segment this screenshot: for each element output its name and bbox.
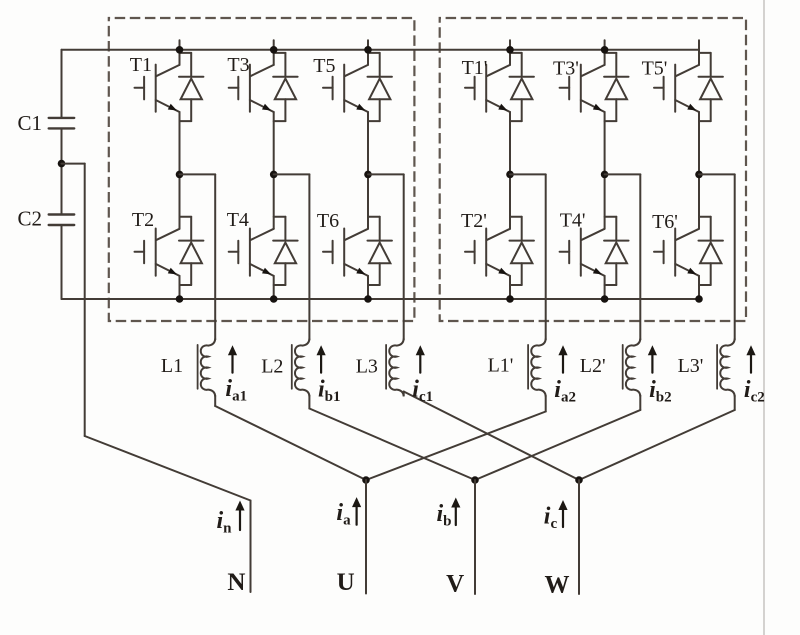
node: bottom rail junction at T6: [364, 295, 372, 303]
node: bottom rail junction at T4': [601, 295, 609, 303]
transistor T1 (IGBT, upper): [135, 40, 180, 174]
inductor L3: [386, 174, 579, 480]
dashed enclosure: inverter bridge 1: [109, 18, 415, 321]
transistor T4' (IGBT, lower): [560, 174, 605, 299]
node: phase-leg midpoint of T3/T4: [270, 171, 278, 179]
current arrow ia: [352, 497, 361, 525]
svg-text:T5': T5': [642, 58, 668, 80]
svg-text:L2: L2: [261, 355, 283, 377]
current arrow in: [235, 501, 244, 531]
svg-text:T6: T6: [317, 210, 339, 232]
node: bottom rail junction at T2: [176, 295, 184, 303]
svg-text:T2: T2: [132, 209, 154, 231]
node: top rail junction at T3: [270, 46, 278, 54]
wire: midpoint tap of leg T5'/T6': [699, 173, 735, 175]
svg-text:W: W: [545, 572, 570, 599]
dashed enclosure: inverter bridge 2: [440, 18, 746, 321]
diode: antiparallel diode of T1: [179, 53, 203, 121]
diode: antiparallel diode of T5: [368, 53, 392, 121]
transistor T5 (IGBT, upper): [323, 40, 368, 174]
diode: antiparallel diode of T4: [273, 217, 297, 285]
svg-text:L1: L1: [161, 355, 183, 377]
node: phase-leg midpoint of T5/T6: [364, 171, 372, 179]
inductor L1: [198, 174, 366, 480]
svg-text:T2': T2': [461, 210, 487, 232]
current arrow ib1: [317, 345, 326, 372]
transistor T6 (IGBT, lower): [323, 174, 368, 299]
svg-text:T5: T5: [313, 55, 335, 77]
node: bottom rail junction at T2': [506, 295, 514, 303]
inductor L1': [366, 174, 546, 480]
node W junction: [575, 476, 583, 484]
wire: midpoint tap of leg T1'/T2': [510, 173, 546, 175]
svg-text:T4: T4: [227, 209, 249, 231]
transistor T4 (IGBT, lower): [229, 174, 274, 299]
node: top rail junction at T1: [176, 46, 184, 54]
svg-text:V: V: [446, 571, 464, 598]
node V junction: [471, 476, 479, 484]
wire: left DC bus (capacitor branch): [61, 50, 63, 117]
svg-text:L3': L3': [678, 355, 704, 377]
transistor T3' (IGBT, upper): [560, 40, 605, 174]
capacitor C1: [49, 117, 74, 119]
node: top rail junction at T5: [364, 46, 372, 54]
node U junction: [362, 476, 370, 484]
transistor T2' (IGBT, lower): [465, 174, 510, 299]
svg-text:C1: C1: [18, 111, 43, 135]
diode: antiparallel diode of T6: [368, 217, 392, 285]
node: capacitor midpoint junction: [58, 160, 66, 168]
svg-text:L3: L3: [356, 355, 378, 377]
svg-text:C2: C2: [18, 207, 43, 231]
svg-text:T3: T3: [227, 54, 249, 76]
diode: antiparallel diode of T2: [179, 217, 203, 285]
wire: U phase output: [365, 480, 367, 594]
diode: antiparallel diode of T6': [699, 217, 723, 285]
diode: antiparallel diode of T2': [510, 217, 534, 285]
current arrow ic1: [416, 345, 425, 372]
transistor T6' (IGBT, lower): [654, 174, 699, 299]
node: top rail junction at T1': [506, 46, 514, 54]
node: top rail junction at T3': [601, 46, 609, 54]
transistor T1' (IGBT, upper): [465, 40, 510, 174]
wire: midpoint tap of leg T5/T6: [368, 173, 404, 175]
svg-text:U: U: [337, 569, 355, 596]
node: phase-leg midpoint of T3'/T4': [601, 171, 609, 179]
svg-text:T6': T6': [652, 211, 678, 233]
svg-text:N: N: [227, 569, 245, 596]
wire: positive DC rail (top): [62, 49, 700, 51]
current arrow ib2: [648, 345, 657, 372]
inductor L2': [475, 174, 640, 480]
inductor L2: [292, 174, 475, 480]
transistor T5' (IGBT, upper): [654, 40, 699, 174]
transistor T3 (IGBT, upper): [229, 40, 274, 174]
svg-text:T1: T1: [130, 54, 152, 76]
svg-text:T4': T4': [560, 210, 586, 232]
svg-text:T3': T3': [553, 57, 579, 79]
wire: neutral line from capacitor midpoint to N: [62, 163, 85, 165]
capacitor C2: [49, 213, 74, 215]
diode: antiparallel diode of T4': [604, 217, 628, 285]
node: phase-leg midpoint of T1/T2: [176, 171, 184, 179]
node: phase-leg midpoint of T1'/T2': [506, 171, 514, 179]
transistor T2 (IGBT, lower): [135, 174, 180, 299]
current arrow ia1: [228, 345, 237, 372]
current arrow ic: [558, 500, 567, 527]
wire: midpoint tap of leg T3/T4: [274, 173, 310, 175]
current arrow ia2: [558, 345, 567, 372]
current arrow ib: [451, 498, 460, 526]
node: phase-leg midpoint of T5'/T6': [695, 171, 703, 179]
node: bottom rail junction at T6': [695, 295, 703, 303]
svg-text:L1': L1': [488, 355, 514, 377]
svg-text:T1': T1': [462, 57, 488, 79]
wire: midpoint tap of leg T1/T2: [180, 173, 216, 175]
diode: antiparallel diode of T1': [510, 53, 534, 121]
inductor L3': [579, 174, 735, 480]
wire: V phase output: [474, 480, 476, 594]
diode: antiparallel diode of T3: [273, 53, 297, 121]
diode: antiparallel diode of T3': [604, 53, 628, 121]
wire: negative DC rail (bottom): [62, 298, 700, 300]
wire: midpoint tap of leg T3'/T4': [605, 173, 641, 175]
svg-text:L2': L2': [580, 355, 606, 377]
wire: W phase output: [578, 480, 580, 594]
node: bottom rail junction at T4: [270, 295, 278, 303]
current arrow ic2: [746, 345, 755, 372]
diode: antiparallel diode of T5': [699, 53, 723, 121]
